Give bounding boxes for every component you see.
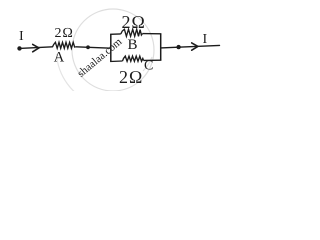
svg-text:B: B (128, 37, 138, 53)
svg-text:2Ω: 2Ω (122, 12, 146, 32)
svg-text:2Ω: 2Ω (55, 26, 74, 41)
node: left terminal dot (17, 46, 21, 50)
svg-text:2Ω: 2Ω (119, 67, 143, 87)
junction dot after resistor A (86, 45, 90, 49)
wire: left input with current arrow (20, 44, 53, 51)
junction dot on output wire (176, 45, 180, 49)
wire: from A to parallel section (76, 47, 111, 48)
wire: top branch right stub (142, 33, 161, 35)
wire: right vertical of parallel section (160, 34, 162, 61)
svg-text:A: A (54, 50, 65, 66)
resistor A (zigzag) (53, 42, 76, 48)
svg-text:C: C (144, 59, 153, 74)
wire: bottom branch right stub (144, 59, 162, 61)
svg-text:I: I (19, 29, 24, 44)
wire: output with current arrow (161, 43, 220, 50)
wire: bottom branch left stub (110, 60, 122, 63)
wire: left vertical of parallel section (110, 34, 112, 61)
wire: top branch left stub (110, 33, 121, 35)
svg-text:I: I (203, 32, 208, 47)
resistor C (zigzag, bottom branch) (123, 56, 144, 61)
resistor B (zigzag, top branch) (121, 29, 143, 36)
